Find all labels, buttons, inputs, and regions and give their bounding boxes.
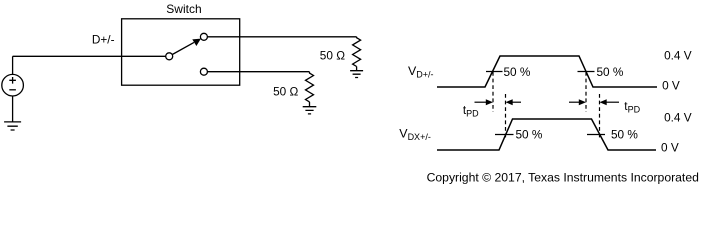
wire node D to switch pole <box>13 55 166 57</box>
svg-text:50 %: 50 % <box>516 128 543 142</box>
svg-text:50 Ω: 50 Ω <box>320 49 345 63</box>
waveform VD trace <box>437 56 657 87</box>
svg-text:Switch: Switch <box>166 2 201 16</box>
wire source bottom to ground <box>12 96 14 122</box>
tick 50% VDX rising <box>495 134 514 136</box>
arrowhead at VDX falling dashed <box>600 99 607 105</box>
waveform VDX trace <box>437 119 656 150</box>
svg-text:50 %: 50 % <box>611 128 638 142</box>
tick 50% VD rising <box>486 71 503 73</box>
svg-text:D+/-: D+/- <box>92 32 115 46</box>
wire R2 to ground <box>309 102 311 107</box>
arrowhead at VD rising dashed <box>486 99 493 105</box>
wire R1 to ground <box>356 67 358 71</box>
tPD arrow left-in (falling) <box>569 101 580 103</box>
dashed line VD rising 50% <box>492 72 494 112</box>
ground (R2) <box>303 107 317 114</box>
wire throw bottom to resistor R2 <box>207 71 309 73</box>
ground (R1) <box>350 71 363 78</box>
tPD arrow right-in (falling) <box>606 101 620 103</box>
tick 50% VDX falling <box>587 134 605 136</box>
wire source top to corner <box>12 56 14 74</box>
svg-text:Copyright © 2017, Texas Instru: Copyright © 2017, Texas Instruments Inco… <box>427 171 699 185</box>
svg-text:tPD: tPD <box>463 103 479 119</box>
tPD arrow left-in (rising) <box>475 101 488 103</box>
resistor R2 zigzag <box>306 72 314 102</box>
switch blade arrowhead <box>192 39 201 46</box>
svg-text:0.4 V: 0.4 V <box>664 49 692 63</box>
voltage source minus sign <box>9 89 16 91</box>
dashed line VD falling 50% <box>585 72 587 112</box>
arrowhead at VD falling dashed <box>579 99 586 105</box>
switch box outline <box>122 19 240 85</box>
dashed line VDX falling 50% <box>599 94 601 140</box>
resistor R1 zigzag <box>353 37 361 67</box>
ground (source) <box>4 122 21 130</box>
switch pole contact <box>166 53 173 60</box>
arrowhead at VDX rising dashed <box>506 99 513 105</box>
dashed line VDX rising 50% <box>505 94 507 140</box>
switch blade wire <box>172 42 194 54</box>
svg-text:0 V: 0 V <box>662 79 680 93</box>
wire throw top to resistor R1 <box>207 36 356 38</box>
voltage source V1 <box>2 74 24 96</box>
switch throw contact bottom <box>200 68 207 75</box>
switch throw contact top <box>200 33 207 40</box>
svg-text:50 %: 50 % <box>597 65 624 79</box>
svg-text:50 Ω: 50 Ω <box>273 85 298 99</box>
svg-text:0.4 V: 0.4 V <box>664 111 692 125</box>
svg-text:VD+/-: VD+/- <box>408 64 434 80</box>
tPD arrow right-in (rising) <box>512 101 522 103</box>
svg-text:VDX+/-: VDX+/- <box>399 127 431 143</box>
tick 50% VD falling <box>578 71 595 73</box>
svg-text:50 %: 50 % <box>504 65 531 79</box>
voltage source plus sign <box>9 77 16 84</box>
svg-text:0 V: 0 V <box>661 141 679 155</box>
svg-text:tPD: tPD <box>624 99 640 115</box>
